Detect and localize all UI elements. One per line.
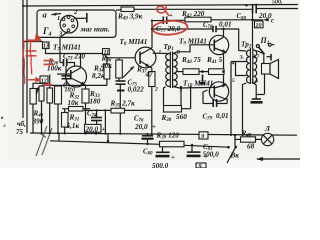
resistor R36 potentiometer xyxy=(100,55,134,79)
wire Tr2 secondary top to switch pivot xyxy=(257,51,265,55)
wire box12 to R30 xyxy=(43,83,45,85)
resistor R33 xyxy=(82,89,101,106)
wire R34 bottom rail xyxy=(106,79,108,85)
svg-text:500,0: 500,0 xyxy=(203,151,220,159)
wire R32 top xyxy=(49,75,51,89)
resistor R390 xyxy=(30,83,44,133)
wire second top rail xyxy=(116,9,121,11)
junction R40/R41 xyxy=(201,70,204,73)
wire T10 collector to Tr2 bottom xyxy=(226,99,228,104)
red annotation vertical scribble 2 xyxy=(30,41,31,75)
lamp L xyxy=(256,125,274,146)
svg-text:c: c xyxy=(271,17,274,25)
switch P1 xyxy=(256,36,274,54)
wire C79 left drop xyxy=(203,90,208,104)
svg-text:500,: 500, xyxy=(272,0,283,6)
transformer Tr2 secondary winding xyxy=(254,50,257,83)
wire C77 rail xyxy=(152,20,163,22)
svg-text:Т9 МП41: Т9 МП41 xyxy=(179,37,207,46)
svg-text:5: 5 xyxy=(232,78,235,84)
svg-text:5,1к: 5,1к xyxy=(67,122,80,130)
capacitor C88 xyxy=(237,2,272,21)
wire speaker to ground xyxy=(256,94,264,96)
wire busA to busB drop xyxy=(107,134,109,141)
transformer Tr2 primary winding xyxy=(246,50,249,83)
resistor R31 xyxy=(62,109,80,134)
wire after R42 xyxy=(211,19,263,21)
svg-text:2: 2 xyxy=(154,87,158,93)
wire Tr1 secondary bottom to T10 base xyxy=(180,86,215,89)
wire after C88 xyxy=(256,8,298,10)
svg-text:8,2к: 8,2к xyxy=(92,72,105,80)
svg-text:С73 270: С73 270 xyxy=(63,53,86,62)
main bus B xyxy=(50,141,229,147)
node box 13 xyxy=(43,42,50,50)
svg-text:100к: 100к xyxy=(47,65,62,73)
capacitor C73 xyxy=(60,37,86,66)
transformer Tr1 core xyxy=(170,52,172,89)
capacitor C74 xyxy=(85,110,106,133)
svg-text:R35 2,7к: R35 2,7к xyxy=(110,100,136,109)
wire Tr2 primary bottom to bus vertical xyxy=(243,83,247,135)
svg-text:10к: 10к xyxy=(68,99,79,107)
terminal bar xyxy=(270,54,272,61)
svg-text:1: 1 xyxy=(159,50,162,56)
node box 9 bottom xyxy=(196,163,206,170)
wire bottom arrow line xyxy=(256,157,300,161)
resistor R38 xyxy=(161,87,191,123)
svg-text:0,01: 0,01 xyxy=(219,21,232,29)
wire top bus xyxy=(22,5,298,7)
capacitor C80 xyxy=(143,144,175,170)
capacitor C76 xyxy=(134,116,156,144)
svg-text:л: л xyxy=(2,124,6,129)
wire step to box 13 xyxy=(23,41,43,43)
potentiometer R30 body xyxy=(34,86,45,101)
connector circle G4 xyxy=(60,15,78,33)
svg-text:+: + xyxy=(171,154,175,161)
loudspeaker Gr xyxy=(262,55,279,95)
wire R37 bottom to T10 rail xyxy=(151,87,153,134)
svg-text:10: 10 xyxy=(256,23,262,29)
resistor R32 body xyxy=(47,88,53,103)
resistor R49 xyxy=(117,7,143,22)
wire left vertical 1 xyxy=(22,0,24,118)
capacitor C77 xyxy=(163,12,173,24)
red annotation dash 2 xyxy=(43,84,52,86)
transformer Tr1 primary winding xyxy=(166,54,170,87)
svg-text:Т7 МП41: Т7 МП41 xyxy=(53,44,81,53)
resistor R35 xyxy=(84,100,152,134)
pencil marks bottom left xyxy=(36,126,52,156)
red annotation arrow right xyxy=(28,77,40,82)
wire Tr1 primary bottom xyxy=(164,87,166,106)
svg-text:20,0: 20,0 xyxy=(85,125,99,133)
svg-text:390: 390 xyxy=(32,117,44,125)
wire T9/T10 emitter rail xyxy=(224,53,227,85)
transformer Tr2 core xyxy=(250,48,252,84)
node box 12 xyxy=(31,76,48,84)
red annotation dash 1 xyxy=(44,61,55,65)
capacitor C79 xyxy=(203,99,229,122)
svg-text:560: 560 xyxy=(176,113,187,121)
main bus A xyxy=(30,133,297,135)
wire T7 collector riser xyxy=(80,54,82,69)
pencil handwriting 46 75 xyxy=(16,120,26,136)
transistor T10 xyxy=(209,82,228,101)
capacitor C72 xyxy=(62,66,76,93)
wire box11 to R36 xyxy=(106,55,135,60)
wire T7 emitter to R33 xyxy=(85,85,87,89)
wire Tr2 tap3 down to bus xyxy=(230,62,232,135)
wire left drop xyxy=(58,133,60,141)
svg-text:47: 47 xyxy=(145,71,154,79)
svg-text:чб,: чб, xyxy=(17,120,26,128)
connector pin dots xyxy=(62,16,74,32)
svg-text:R42 220: R42 220 xyxy=(181,10,205,19)
transistor T7 xyxy=(57,66,87,87)
transformer Tr1 secondary winding xyxy=(173,54,177,87)
label a with arrow xyxy=(43,10,62,20)
resistor R48 xyxy=(235,130,256,151)
resistor R40 xyxy=(181,56,201,75)
wire C88 to C77 rail xyxy=(252,9,254,20)
wire to R42 xyxy=(167,19,185,21)
switch Vk xyxy=(227,134,239,163)
svg-text:маг нит.: маг нит. xyxy=(80,25,110,34)
resistor R39 xyxy=(156,131,185,147)
wire Tr2 taps left xyxy=(231,62,247,76)
wire R41 to emitter rail xyxy=(223,71,226,73)
transistor T8 xyxy=(135,47,156,68)
svg-text:500,0: 500,0 xyxy=(152,162,169,168)
resistor R32 10k horizontal xyxy=(62,92,90,112)
capacitor C81 xyxy=(187,144,220,160)
wire R34 top to base rail xyxy=(106,57,108,65)
wire T8 collector to C77 rail xyxy=(151,21,152,49)
svg-text:20,0: 20,0 xyxy=(258,12,272,20)
red annotation cross junction xyxy=(26,35,41,41)
svg-text:68: 68 xyxy=(247,142,255,150)
node box 9 xyxy=(199,132,208,140)
svg-text:Т8 МП41: Т8 МП41 xyxy=(120,38,148,47)
wire R33 bottom xyxy=(85,103,87,134)
node box 11 xyxy=(103,49,110,56)
capacitor C78 xyxy=(151,21,246,52)
red annotation loop top xyxy=(157,5,169,16)
svg-text:40к: 40к xyxy=(100,62,112,70)
resistor R34 xyxy=(92,64,110,80)
svg-text:180: 180 xyxy=(90,98,101,106)
wire R40 to R41 xyxy=(199,71,209,73)
wire T9 collector to Tr2 xyxy=(223,29,224,38)
svg-text:9: 9 xyxy=(199,164,202,168)
wire rect bottoms to bus xyxy=(41,101,43,133)
ground xyxy=(251,99,263,104)
svg-text:2,7: 2,7 xyxy=(252,54,260,60)
paper background xyxy=(0,0,300,168)
svg-text:3,: 3, xyxy=(239,55,244,61)
resistor R37 xyxy=(136,66,155,87)
red annotation plates xyxy=(26,51,37,56)
svg-text:Вк: Вк xyxy=(230,152,240,160)
wire from box13 down then right (mid rail) xyxy=(46,49,103,54)
svg-text:0,01: 0,01 xyxy=(216,112,229,120)
wire Tr1 secondary top to T9 base xyxy=(173,45,214,54)
junction C88 drop xyxy=(251,19,254,22)
wire rail after R49 xyxy=(134,8,252,10)
resistor R42 xyxy=(181,10,211,22)
wire T8 emitter to R37 xyxy=(150,67,152,72)
transistor T9 xyxy=(209,35,228,54)
capacitor C72 body rect xyxy=(55,86,62,104)
svg-text:+: + xyxy=(175,70,178,75)
stub center junction down xyxy=(202,75,204,83)
wire left vertical 2 xyxy=(26,0,28,133)
wire down to Tr2 secondary xyxy=(252,20,254,49)
svg-text:+: + xyxy=(245,2,249,9)
svg-text:75: 75 xyxy=(16,128,24,136)
red annotation vertical scribble 1 xyxy=(23,41,25,84)
svg-text:9: 9 xyxy=(201,134,204,140)
pin 3 wire xyxy=(60,32,68,37)
svg-text:0,022: 0,022 xyxy=(128,85,145,93)
wire Tr1 primary top xyxy=(153,52,170,54)
svg-text:20,0: 20,0 xyxy=(134,123,148,131)
capacitor C75 xyxy=(116,78,145,134)
svg-text:R39 120: R39 120 xyxy=(156,131,180,140)
node box 10 xyxy=(255,21,264,29)
scan speckle noise xyxy=(10,3,294,159)
connector box G4 xyxy=(37,10,116,37)
red annotation ellipse around C77 xyxy=(152,20,188,36)
svg-text:1: 1 xyxy=(57,15,60,22)
pin 2 stub and bar xyxy=(74,17,87,19)
svg-text:+: + xyxy=(152,124,156,131)
wire Tr1 center tap to R40 xyxy=(177,71,183,73)
arrow to c xyxy=(263,17,274,25)
wire top rail over rects xyxy=(42,84,107,86)
resistor R41 xyxy=(206,56,224,75)
